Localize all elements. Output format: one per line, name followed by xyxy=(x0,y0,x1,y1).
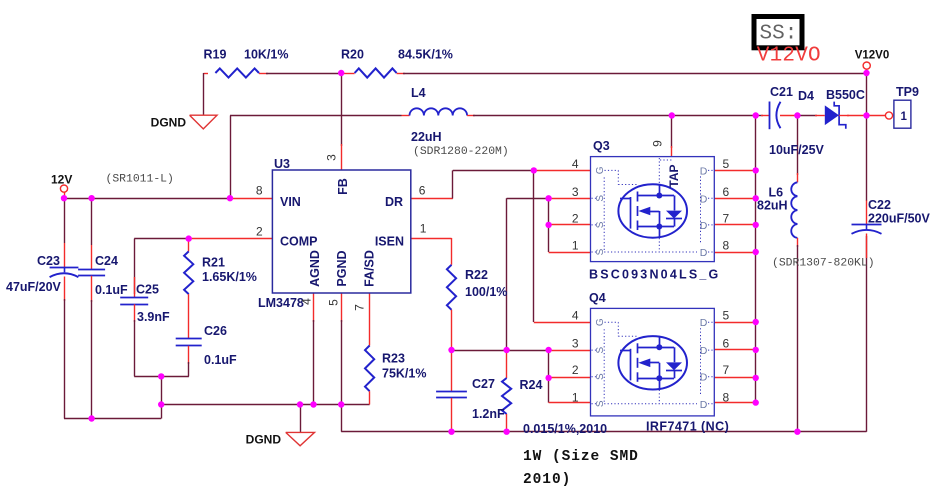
svg-text:D: D xyxy=(700,193,708,205)
svg-text:1: 1 xyxy=(420,222,427,236)
svg-text:0.1uF: 0.1uF xyxy=(95,283,128,297)
svg-text:DR: DR xyxy=(385,195,403,209)
svg-text:3.9nF: 3.9nF xyxy=(137,310,170,324)
svg-text:6: 6 xyxy=(723,337,730,351)
svg-text:D: D xyxy=(700,345,708,357)
svg-text:7: 7 xyxy=(353,304,367,311)
svg-text:L4: L4 xyxy=(411,86,426,100)
svg-text:0.1uF: 0.1uF xyxy=(204,353,237,367)
svg-text:COMP: COMP xyxy=(280,235,318,249)
svg-text:10K/1%: 10K/1% xyxy=(244,48,288,62)
svg-text:1W (Size SMD: 1W (Size SMD xyxy=(523,449,639,465)
svg-text:22uH: 22uH xyxy=(411,130,442,144)
svg-text:R22: R22 xyxy=(465,268,488,282)
svg-text:0.015/1%,2010: 0.015/1%,2010 xyxy=(523,422,607,436)
svg-text:D: D xyxy=(700,165,708,177)
svg-text:1: 1 xyxy=(901,111,908,123)
svg-text:FB: FB xyxy=(336,178,350,195)
svg-text:D4: D4 xyxy=(798,89,814,103)
svg-text:8: 8 xyxy=(723,239,730,253)
svg-text:C23: C23 xyxy=(37,254,60,268)
svg-text:DGND: DGND xyxy=(151,116,187,130)
svg-text:75K/1%: 75K/1% xyxy=(382,367,426,381)
svg-text:Q3: Q3 xyxy=(593,139,610,153)
svg-text:V12V0: V12V0 xyxy=(855,50,890,62)
svg-text:SS:: SS: xyxy=(760,23,798,46)
svg-text:3: 3 xyxy=(325,154,339,161)
svg-text:2010): 2010) xyxy=(523,472,571,486)
svg-text:2: 2 xyxy=(572,363,579,377)
svg-text:1.2nF: 1.2nF xyxy=(472,407,505,421)
svg-text:5: 5 xyxy=(723,309,730,323)
svg-text:PGND: PGND xyxy=(335,250,349,286)
svg-text:B550C: B550C xyxy=(826,88,865,102)
svg-text:R20: R20 xyxy=(341,48,364,62)
svg-text:100/1%: 100/1% xyxy=(465,285,507,299)
svg-text:C22: C22 xyxy=(868,198,891,212)
svg-text:9: 9 xyxy=(651,140,665,147)
svg-text:TP9: TP9 xyxy=(896,85,919,99)
svg-text:5: 5 xyxy=(723,157,730,171)
svg-text:ISEN: ISEN xyxy=(375,235,404,249)
svg-text:84.5K/1%: 84.5K/1% xyxy=(398,48,453,62)
svg-text:Q4: Q4 xyxy=(589,291,606,305)
svg-text:6: 6 xyxy=(723,185,730,199)
svg-text:12V: 12V xyxy=(51,173,72,187)
svg-text:R19: R19 xyxy=(204,48,227,62)
svg-text:R24: R24 xyxy=(520,378,543,392)
svg-text:C26: C26 xyxy=(204,324,227,338)
svg-text:1.65K/1%: 1.65K/1% xyxy=(202,270,257,284)
svg-text:6: 6 xyxy=(419,184,426,198)
svg-text:4: 4 xyxy=(572,309,579,323)
svg-text:82uH: 82uH xyxy=(757,199,788,213)
svg-text:4: 4 xyxy=(572,157,579,171)
svg-text:G: G xyxy=(595,318,606,326)
svg-text:D: D xyxy=(700,247,708,259)
svg-text:(SDR1280-220M): (SDR1280-220M) xyxy=(413,146,509,158)
svg-text:3: 3 xyxy=(572,185,579,199)
svg-text:220uF/50V: 220uF/50V xyxy=(868,212,931,226)
svg-text:7: 7 xyxy=(723,363,730,377)
svg-text:1: 1 xyxy=(572,239,579,253)
svg-text:LM3478: LM3478 xyxy=(258,296,304,310)
svg-text:TAP: TAP xyxy=(667,164,681,187)
svg-text:3: 3 xyxy=(572,337,579,351)
svg-text:C27: C27 xyxy=(472,377,495,391)
svg-text:2: 2 xyxy=(572,211,579,225)
svg-text:2: 2 xyxy=(256,225,263,239)
svg-text:8: 8 xyxy=(723,390,730,404)
svg-text:IRF7471 (NC): IRF7471 (NC) xyxy=(646,420,729,434)
svg-text:AGND: AGND xyxy=(308,250,322,287)
svg-text:5: 5 xyxy=(327,299,341,306)
svg-text:R23: R23 xyxy=(382,352,405,366)
svg-text:D: D xyxy=(700,399,708,411)
svg-text:R21: R21 xyxy=(202,256,225,270)
svg-text:(SR1011-L): (SR1011-L) xyxy=(106,174,174,186)
svg-text:7: 7 xyxy=(723,211,730,225)
svg-text:(SDR1307-820KL): (SDR1307-820KL) xyxy=(772,258,875,270)
svg-text:8: 8 xyxy=(256,184,263,198)
svg-text:FA/SD: FA/SD xyxy=(363,250,377,287)
svg-text:C25: C25 xyxy=(136,283,159,297)
svg-text:BSC093N04LS_G: BSC093N04LS_G xyxy=(589,268,720,282)
svg-text:10uF/25V: 10uF/25V xyxy=(769,143,825,157)
svg-text:C21: C21 xyxy=(770,85,793,99)
svg-text:U3: U3 xyxy=(274,157,290,171)
svg-text:1: 1 xyxy=(572,390,579,404)
svg-text:DGND: DGND xyxy=(246,433,282,447)
svg-text:L6: L6 xyxy=(769,186,784,200)
svg-text:G: G xyxy=(595,166,606,174)
svg-text:VIN: VIN xyxy=(280,195,301,209)
svg-text:D: D xyxy=(700,317,708,329)
svg-text:C24: C24 xyxy=(95,254,118,268)
svg-text:47uF/20V: 47uF/20V xyxy=(6,280,62,294)
svg-text:V12VO: V12VO xyxy=(757,45,821,68)
svg-text:4: 4 xyxy=(300,298,314,305)
